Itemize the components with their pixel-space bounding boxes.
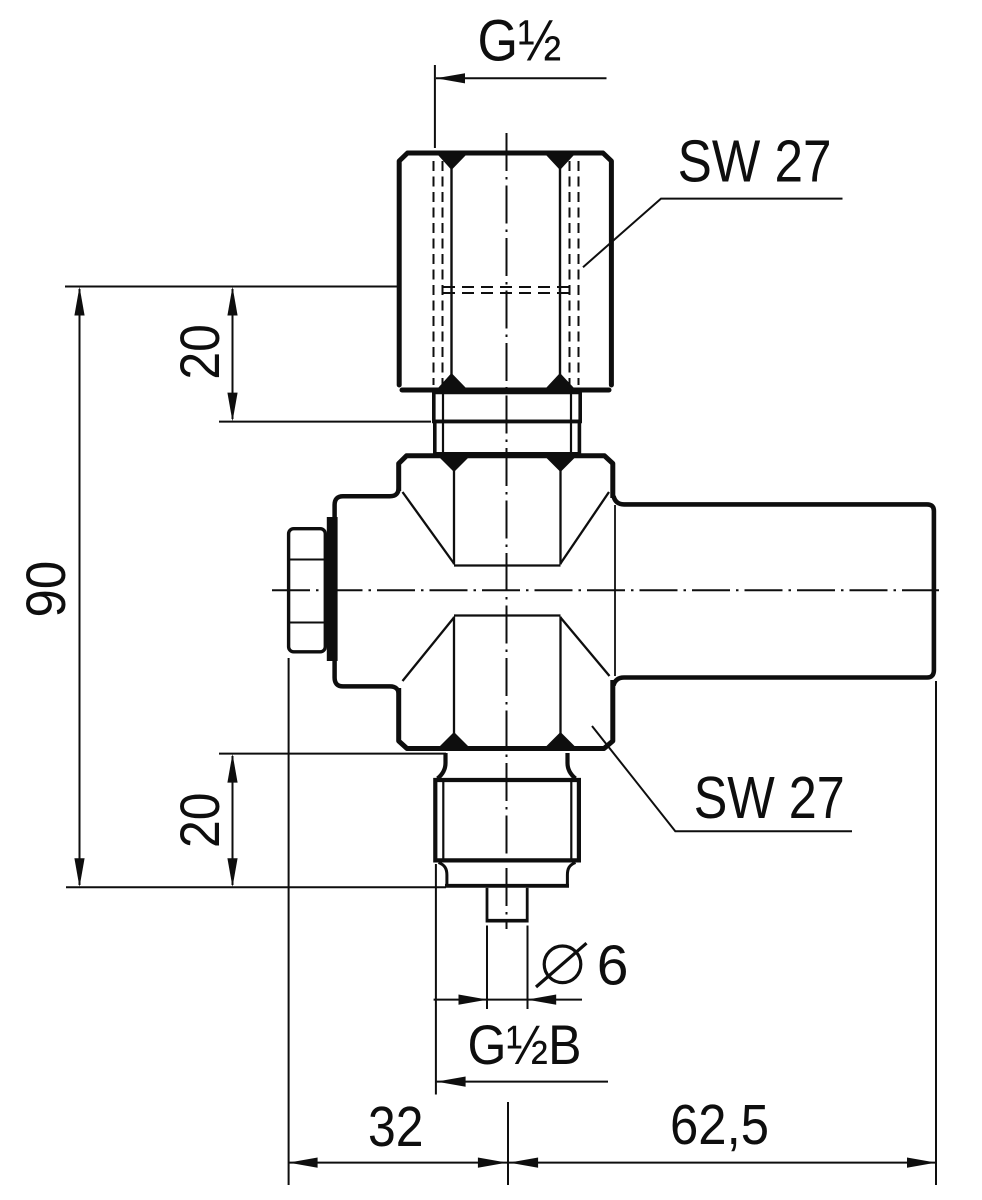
svg-text:20: 20	[169, 324, 231, 380]
svg-text:62,5: 62,5	[670, 1093, 769, 1157]
svg-text:SW 27: SW 27	[678, 128, 832, 194]
svg-text:90: 90	[15, 561, 77, 618]
svg-text:G½B: G½B	[468, 1014, 582, 1076]
svg-text:20: 20	[169, 793, 231, 849]
svg-text:SW 27: SW 27	[694, 765, 845, 831]
svg-text:32: 32	[368, 1095, 424, 1158]
svg-text:G½: G½	[478, 8, 562, 73]
svg-text:6: 6	[597, 933, 629, 997]
